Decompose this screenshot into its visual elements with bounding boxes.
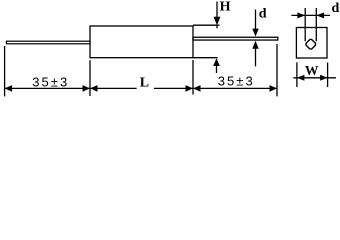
svg-text:H: H [220,0,231,15]
svg-text:d: d [259,6,267,21]
svg-text:d: d [332,1,340,16]
svg-text:W: W [305,64,319,79]
svg-text:L: L [140,76,149,91]
